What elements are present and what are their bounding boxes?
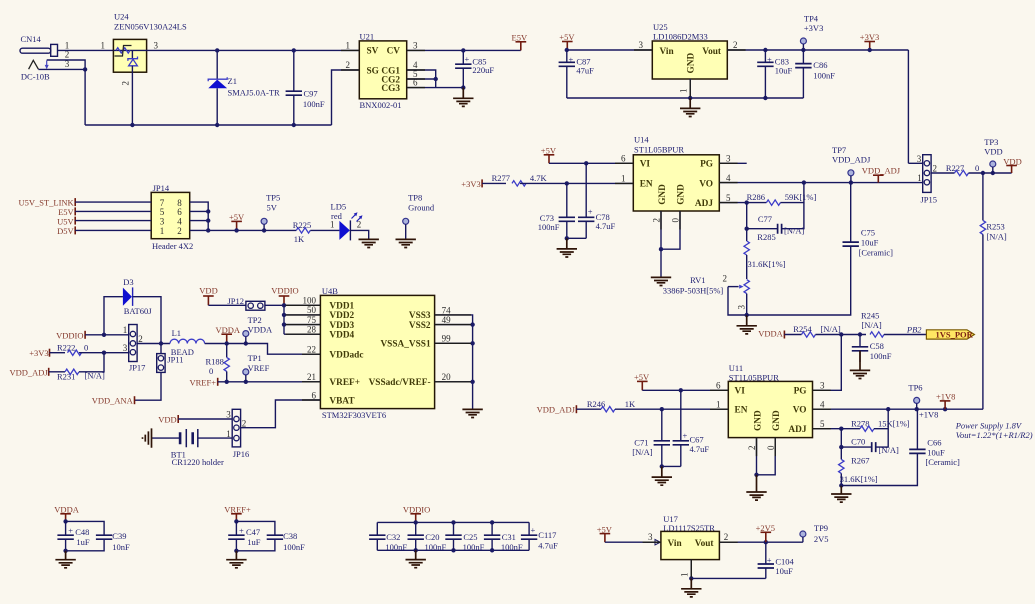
svg-text:2: 2 bbox=[652, 218, 662, 223]
test point TP4 bbox=[800, 13, 823, 50]
ground under U25 bbox=[680, 98, 700, 117]
capacitor C32 100nF bbox=[369, 522, 407, 552]
wire VDDIO to JP17 pin1 bbox=[85, 334, 129, 336]
wire down from CN14 to bottom rail bbox=[84, 69, 86, 125]
junction C87 bbox=[565, 48, 569, 52]
svg-text:Vout: Vout bbox=[702, 47, 722, 57]
svg-text:JP14: JP14 bbox=[153, 183, 170, 193]
junction pin6 bbox=[206, 209, 210, 213]
svg-text:3: 3 bbox=[737, 305, 747, 310]
svg-text:VDDA: VDDA bbox=[248, 325, 273, 335]
svg-text:L1: L1 bbox=[172, 328, 181, 338]
svg-text:GND: GND bbox=[676, 184, 686, 205]
svg-text:0: 0 bbox=[84, 342, 88, 352]
capacitor C38 100nF bbox=[236, 521, 305, 552]
svg-text:4.7uF: 4.7uF bbox=[690, 444, 710, 454]
resistor R285 31.6K[1%] bbox=[744, 232, 786, 279]
svg-text:3: 3 bbox=[123, 343, 128, 353]
svg-text:2: 2 bbox=[724, 532, 729, 542]
wire VDD2 stub bbox=[284, 314, 320, 316]
U14 GND pin wires bbox=[660, 211, 662, 249]
junction C47 bottom bbox=[234, 549, 238, 553]
svg-text:VDD: VDD bbox=[199, 286, 217, 296]
ground under C48 bbox=[55, 551, 75, 568]
svg-text:ADJ: ADJ bbox=[788, 425, 806, 435]
svg-text:GND: GND bbox=[687, 53, 697, 74]
svg-text:ADJ: ADJ bbox=[695, 199, 713, 209]
junction C104 bbox=[764, 540, 768, 544]
svg-text:31.6K[1%]: 31.6K[1%] bbox=[748, 259, 786, 269]
svg-text:1K: 1K bbox=[625, 399, 636, 409]
svg-text:2: 2 bbox=[177, 226, 182, 236]
wire R254 to node bbox=[816, 334, 867, 336]
svg-text:U24: U24 bbox=[114, 12, 129, 22]
svg-text:2: 2 bbox=[733, 40, 738, 50]
wire ADJ node down bbox=[840, 429, 842, 460]
svg-text:ST1L05BPUR: ST1L05BPUR bbox=[634, 144, 684, 154]
wire pin1 to U24 bbox=[58, 49, 114, 51]
ground under TP8 bbox=[396, 239, 416, 247]
svg-text:VDD_ANA: VDD_ANA bbox=[92, 396, 134, 406]
junction C97 top bbox=[292, 48, 296, 52]
svg-text:Vin: Vin bbox=[660, 47, 675, 57]
svg-text:74: 74 bbox=[442, 305, 452, 315]
port VDD_ANA bbox=[92, 396, 135, 406]
power port +1V8 bbox=[936, 392, 955, 410]
svg-text:3: 3 bbox=[639, 40, 644, 50]
svg-text:VDD_ADJ: VDD_ADJ bbox=[832, 155, 871, 165]
svg-text:1: 1 bbox=[679, 89, 689, 94]
capacitor C39 10nF bbox=[66, 521, 130, 552]
capacitor C58 100nF bbox=[852, 335, 892, 363]
svg-text:[N/A]: [N/A] bbox=[632, 447, 652, 457]
svg-text:5: 5 bbox=[820, 419, 825, 429]
wire R231 up to pin3 node bbox=[79, 353, 104, 372]
ground under VDDIO bank bbox=[406, 550, 426, 567]
svg-text:VDD1: VDD1 bbox=[329, 302, 354, 312]
wire U14 PG stub bbox=[719, 162, 746, 164]
svg-text:VDD3: VDD3 bbox=[329, 321, 354, 331]
svg-text:PG: PG bbox=[794, 387, 807, 397]
svg-text:3: 3 bbox=[226, 410, 231, 420]
wire VDDIO bus vertical bbox=[283, 305, 285, 334]
port VREF+ (cap bank) bbox=[224, 505, 251, 522]
svg-text:2: 2 bbox=[121, 81, 131, 86]
port VDD_ADJ (U11 EN) bbox=[537, 405, 577, 415]
svg-text:TP5: TP5 bbox=[266, 193, 280, 203]
wire JP14 pin3 bbox=[75, 220, 151, 222]
capacitor C66 10uF Ceramic bbox=[909, 409, 960, 467]
regulator U25 LD1086D2M33 bbox=[652, 22, 727, 79]
capacitor C97 100nF bbox=[286, 50, 325, 125]
junction C47 top bbox=[234, 519, 238, 523]
CN14 switch lever bbox=[29, 60, 39, 69]
junction C48 bottom bbox=[63, 549, 67, 553]
wire U24 pin3 to U21 bbox=[147, 49, 360, 51]
svg-text:1: 1 bbox=[346, 40, 351, 50]
junction TP3 bbox=[991, 171, 995, 175]
svg-text:100nF: 100nF bbox=[425, 542, 447, 552]
protection device U24 ZEN056V130A24LS bbox=[113, 12, 187, 86]
LED LD5 red bbox=[331, 202, 363, 241]
junction VSSA_VSS1 bbox=[470, 341, 474, 345]
svg-text:50: 50 bbox=[307, 305, 317, 315]
power port +5V (U11) bbox=[634, 372, 650, 390]
U17 input pin arrow bbox=[655, 540, 660, 545]
wire VDD to JP16 pin3 bbox=[178, 418, 232, 420]
svg-text:+: + bbox=[465, 54, 470, 64]
header JP12 bbox=[228, 296, 265, 310]
regulator U11 ST1L05BPUR bbox=[728, 363, 812, 438]
junction C48 top bbox=[63, 519, 67, 523]
svg-text:[N/A]: [N/A] bbox=[986, 231, 1006, 241]
wire R227 to VDD bbox=[969, 172, 1012, 174]
ground under LD5 bbox=[359, 239, 379, 247]
svg-text:+3V3: +3V3 bbox=[804, 23, 823, 33]
svg-text:VI: VI bbox=[735, 387, 746, 397]
svg-text:TP1: TP1 bbox=[248, 353, 262, 363]
junction R231 node bbox=[102, 351, 106, 355]
svg-text:Z1: Z1 bbox=[228, 76, 237, 86]
svg-text:3: 3 bbox=[726, 154, 731, 164]
junction C71 bottom bbox=[660, 464, 664, 468]
junction +3V3 bbox=[868, 48, 872, 52]
junction Z1 bottom bbox=[215, 123, 219, 127]
wire RV1 to C75 bottom bbox=[747, 247, 851, 315]
capacitor C78 4.7uF bbox=[578, 163, 615, 238]
junction TP2 bbox=[244, 341, 248, 345]
junction TP6 bbox=[915, 407, 919, 411]
wire VDDA node to pin22 bbox=[227, 344, 321, 355]
junction TP7 bbox=[849, 180, 853, 184]
svg-text:TP7: TP7 bbox=[832, 145, 846, 155]
wire U14 VO rail bbox=[719, 182, 922, 184]
junction U25 gnd bbox=[688, 96, 692, 100]
header JP16 bbox=[226, 409, 249, 459]
svg-text:100: 100 bbox=[303, 296, 317, 306]
wire U21 CV to E5V bbox=[407, 49, 521, 51]
svg-text:C75: C75 bbox=[861, 228, 875, 238]
junction VDD2 bbox=[282, 313, 286, 317]
resistor R222 0 bbox=[57, 342, 88, 355]
junction C77 left bbox=[745, 227, 749, 231]
svg-text:3: 3 bbox=[413, 40, 418, 50]
svg-text:BNX002-01: BNX002-01 bbox=[360, 100, 402, 110]
svg-text:CV: CV bbox=[387, 47, 401, 57]
test point TP9 bbox=[800, 523, 829, 544]
svg-text:VDD_ADJ: VDD_ADJ bbox=[9, 367, 48, 377]
svg-text:EN: EN bbox=[735, 406, 748, 416]
svg-text:VDD_ADJ: VDD_ADJ bbox=[862, 165, 901, 175]
power port +5V (U14) bbox=[541, 146, 557, 164]
svg-text:6: 6 bbox=[716, 380, 721, 390]
inductor L1 BEAD bbox=[170, 328, 205, 357]
svg-text:31.6K[1%]: 31.6K[1%] bbox=[840, 474, 878, 484]
junction R253 top bbox=[981, 171, 985, 175]
svg-text:Vout=1.22*(1+R1/R2): Vout=1.22*(1+R1/R2) bbox=[956, 430, 1033, 440]
junction +1V8 bbox=[943, 407, 947, 411]
svg-text:10uF: 10uF bbox=[927, 447, 945, 457]
svg-text:4: 4 bbox=[726, 173, 731, 183]
pin stubs (black) U4B bbox=[286, 305, 472, 400]
svg-text:Power Supply 1.8V: Power Supply 1.8V bbox=[955, 421, 1023, 431]
port VREF+ (center) bbox=[189, 378, 217, 388]
svg-text:4.7uF: 4.7uF bbox=[596, 221, 616, 231]
test point TP8 bbox=[403, 193, 435, 239]
svg-text:U11: U11 bbox=[729, 363, 743, 373]
svg-text:20: 20 bbox=[442, 372, 452, 382]
wire VSS3 to bus bbox=[435, 315, 473, 409]
resistor R277 4.7K bbox=[492, 173, 548, 186]
svg-text:R253: R253 bbox=[986, 221, 1004, 231]
mcu U4B STM32F303VET6 bbox=[320, 286, 434, 420]
svg-text:VSSA_VSS1: VSSA_VSS1 bbox=[380, 340, 430, 350]
resistor R231 [N/A] bbox=[57, 369, 105, 381]
svg-text:VBAT: VBAT bbox=[329, 396, 355, 406]
svg-text:1: 1 bbox=[101, 40, 106, 50]
svg-text:100nF: 100nF bbox=[283, 542, 305, 552]
svg-text:R278: R278 bbox=[851, 418, 869, 428]
test point TP3 bbox=[984, 137, 1002, 173]
svg-text:TP4: TP4 bbox=[804, 13, 819, 23]
U25 GND pin wire bbox=[689, 79, 691, 98]
svg-text:2: 2 bbox=[242, 419, 247, 429]
svg-text:[Ceramic]: [Ceramic] bbox=[925, 457, 960, 467]
ground under U11 bbox=[746, 475, 766, 500]
wire R278 right to VO bbox=[874, 409, 888, 429]
svg-text:JP16: JP16 bbox=[233, 449, 250, 459]
svg-text:R285: R285 bbox=[757, 232, 775, 242]
junction TP5 bbox=[262, 228, 266, 232]
wire U11 ADJ bbox=[813, 428, 861, 430]
junction U14 gnd bbox=[659, 247, 663, 251]
capacitor C87 47uF bbox=[559, 50, 595, 98]
svg-text:U25: U25 bbox=[653, 22, 668, 32]
svg-text:TP9: TP9 bbox=[814, 523, 828, 533]
junction bank bottom C20 bbox=[414, 548, 418, 552]
svg-text:VDDA: VDDA bbox=[758, 329, 783, 339]
svg-text:VDD4: VDD4 bbox=[329, 331, 354, 341]
svg-text:GND: GND bbox=[753, 410, 763, 431]
wire JP14 pin4 bbox=[190, 220, 209, 222]
junction bank top C31 bbox=[490, 520, 494, 524]
power port VDD_ADJ (U14 out) bbox=[862, 165, 901, 182]
svg-text:75: 75 bbox=[307, 315, 317, 325]
svg-text:100nF: 100nF bbox=[538, 222, 560, 232]
power port VDD (right) bbox=[1003, 156, 1021, 173]
wire JP14 pin2 to LED rail bbox=[190, 229, 297, 231]
svg-text:DC-10B: DC-10B bbox=[21, 72, 50, 82]
wire VDD4 stub bbox=[284, 333, 320, 335]
wire JP14 pin6 bbox=[190, 210, 209, 212]
svg-text:JP15: JP15 bbox=[921, 194, 938, 204]
svg-text:SG: SG bbox=[367, 66, 379, 76]
pin stubs (black) U25 bbox=[634, 50, 746, 97]
junction U11 gnd bbox=[754, 473, 758, 477]
svg-text:VDD_ADJ: VDD_ADJ bbox=[537, 405, 576, 415]
wire C66 bottom to ground node bbox=[841, 454, 917, 486]
resistor R254 [N/A] bbox=[793, 324, 841, 337]
port VDD_ADJ (R231) bbox=[9, 367, 48, 377]
header JP11 bbox=[157, 344, 184, 373]
svg-text:3: 3 bbox=[917, 154, 922, 164]
junction C83 top bbox=[763, 48, 767, 52]
junction C70 left bbox=[839, 445, 843, 449]
svg-text:22: 22 bbox=[307, 345, 316, 355]
svg-text:JP12: JP12 bbox=[228, 296, 245, 306]
svg-text:100nF: 100nF bbox=[501, 542, 523, 552]
U17 GND pin wire bbox=[690, 560, 692, 579]
svg-text:RV1: RV1 bbox=[690, 275, 705, 285]
wire VDDIO bank top rail bbox=[377, 521, 529, 523]
test point TP2 bbox=[243, 315, 273, 344]
header JP17 bbox=[123, 325, 146, 373]
capacitor C48 1uF bbox=[57, 521, 90, 550]
svg-text:100nF: 100nF bbox=[303, 99, 325, 109]
svg-text:220uF: 220uF bbox=[472, 65, 494, 75]
diode D3 BAT60J bbox=[123, 277, 152, 316]
svg-text:C38: C38 bbox=[283, 531, 297, 541]
svg-text:VREF: VREF bbox=[248, 363, 270, 373]
capacitor C25 100nF bbox=[445, 522, 484, 552]
svg-text:R188: R188 bbox=[206, 356, 224, 366]
port E5V (JP14) bbox=[58, 207, 75, 217]
capacitor C104 10uF bbox=[758, 542, 795, 578]
wire R222 to JP17 pin3 bbox=[79, 352, 129, 354]
svg-text:R286: R286 bbox=[747, 192, 765, 202]
ground under C73 bbox=[557, 238, 577, 257]
capacitor C77 [N/A] bbox=[747, 203, 805, 236]
power port +5V (U17) bbox=[597, 524, 613, 542]
test point TP7 bbox=[832, 145, 871, 183]
capacitor C20 100nF bbox=[408, 522, 447, 552]
wire pin2 segment bbox=[47, 60, 85, 69]
port VDDIO (cap bank) bbox=[403, 505, 430, 523]
svg-text:R267: R267 bbox=[851, 456, 869, 466]
svg-text:LD5: LD5 bbox=[331, 202, 347, 212]
wire VDD_ADJ to R231 bbox=[49, 371, 65, 373]
svg-text:4.7K: 4.7K bbox=[530, 173, 548, 183]
junction R278 top bbox=[886, 407, 890, 411]
resistor R227 0 bbox=[946, 163, 979, 176]
svg-text:2: 2 bbox=[933, 164, 938, 174]
svg-text:C32: C32 bbox=[386, 532, 400, 542]
port VDDA (POR row) bbox=[758, 329, 784, 339]
svg-text:U21: U21 bbox=[360, 32, 375, 42]
port VDD (JP12) bbox=[199, 286, 217, 306]
svg-text:10uF: 10uF bbox=[775, 566, 793, 576]
pin stubs (black) U21 bbox=[341, 50, 425, 87]
svg-text:+: + bbox=[68, 525, 73, 535]
svg-text:3: 3 bbox=[160, 216, 165, 226]
junction pin4 bbox=[206, 218, 210, 222]
svg-text:Vout: Vout bbox=[695, 539, 715, 549]
junction ADJ node bbox=[745, 200, 749, 204]
svg-text:CR1220 holder: CR1220 holder bbox=[172, 457, 224, 467]
ground under C85 bbox=[453, 88, 473, 107]
connector CN14 DC-10B bbox=[20, 34, 58, 82]
svg-text:VDD: VDD bbox=[158, 415, 176, 425]
svg-text:1uF: 1uF bbox=[76, 537, 90, 547]
note power supply text bbox=[955, 421, 1033, 441]
svg-text:STM32F303VET6: STM32F303VET6 bbox=[322, 410, 386, 420]
capacitor C31 100nF bbox=[484, 522, 523, 552]
resistor R188 0 bbox=[206, 344, 230, 382]
svg-text:[N/A]: [N/A] bbox=[820, 324, 840, 334]
svg-text:1: 1 bbox=[917, 173, 922, 183]
svg-text:R222: R222 bbox=[57, 342, 75, 352]
svg-text:[N/A]: [N/A] bbox=[861, 320, 881, 330]
svg-text:100nF: 100nF bbox=[813, 71, 835, 81]
ground under U17 bbox=[681, 578, 701, 596]
svg-text:+: + bbox=[569, 54, 574, 64]
wire U11 VO rail bbox=[813, 408, 984, 410]
U11 GND pin wires bbox=[756, 438, 758, 475]
wire U21 CG3 bbox=[407, 87, 464, 89]
power port +3V3 (U14 EN) bbox=[461, 179, 482, 189]
resistor R246 1K bbox=[587, 399, 636, 412]
wire PG riser bbox=[813, 335, 842, 391]
svg-text:+3V3: +3V3 bbox=[860, 32, 879, 42]
resistor R245 [N/A] bbox=[861, 310, 884, 337]
capacitor C71 [N/A] bbox=[632, 409, 670, 466]
svg-text:R245: R245 bbox=[861, 310, 879, 320]
capacitor C86 100nF bbox=[795, 50, 835, 98]
junction Z1 top bbox=[215, 48, 219, 52]
junction VDD3 bbox=[282, 322, 286, 326]
wire rail up to U21 SG bbox=[332, 70, 360, 125]
svg-text:PB2: PB2 bbox=[906, 324, 922, 334]
svg-text:+3V3: +3V3 bbox=[29, 348, 48, 358]
svg-text:TP3: TP3 bbox=[984, 137, 998, 147]
svg-text:28: 28 bbox=[307, 325, 317, 335]
svg-text:2: 2 bbox=[747, 446, 757, 451]
svg-text:C39: C39 bbox=[112, 531, 126, 541]
power port +5V (U25) bbox=[559, 32, 575, 50]
junction bank bottom C25 bbox=[451, 548, 455, 552]
svg-text:0: 0 bbox=[671, 218, 681, 223]
junction TP1 bbox=[244, 380, 248, 384]
junction CG2 bbox=[434, 77, 438, 81]
svg-text:VDDIO: VDDIO bbox=[271, 286, 298, 296]
svg-text:3: 3 bbox=[820, 380, 825, 390]
svg-text:1: 1 bbox=[160, 226, 165, 236]
svg-text:3: 3 bbox=[154, 40, 159, 50]
svg-text:Ground: Ground bbox=[408, 202, 435, 212]
svg-text:C104: C104 bbox=[775, 556, 794, 566]
svg-text:10uF: 10uF bbox=[775, 65, 793, 75]
ground under C71 bbox=[652, 466, 672, 485]
wire U21 CG2 bbox=[407, 78, 436, 80]
junction C83 bottom bbox=[763, 96, 767, 100]
svg-text:C97: C97 bbox=[304, 89, 318, 99]
svg-text:VSS3: VSS3 bbox=[409, 311, 431, 321]
regulator U14 ST1L05BPUR bbox=[633, 135, 719, 212]
wire JP14 pin7 bbox=[75, 201, 151, 203]
wire L1 to VDDA node bbox=[205, 343, 227, 345]
svg-text:[Ceramic]: [Ceramic] bbox=[859, 247, 894, 257]
svg-text:LD1086D2M33: LD1086D2M33 bbox=[653, 32, 708, 42]
svg-text:+1V8: +1V8 bbox=[936, 392, 955, 402]
wire +5V to U11 VI bbox=[642, 389, 728, 391]
wire VSSA_VSS1 bbox=[435, 342, 473, 344]
svg-text:+1V8: +1V8 bbox=[919, 410, 938, 420]
svg-text:C20: C20 bbox=[425, 532, 439, 542]
svg-text:VSSadc/VREF-: VSSadc/VREF- bbox=[369, 378, 431, 388]
capacitor C47 1uF bbox=[228, 521, 261, 550]
wire U24 pin2 down bbox=[131, 72, 133, 125]
junction C73 bottom bbox=[565, 236, 569, 240]
